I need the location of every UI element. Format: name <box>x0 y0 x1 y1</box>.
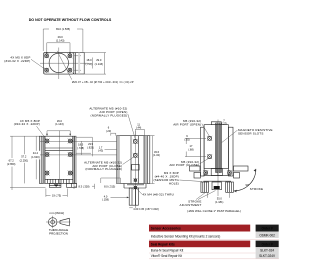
svg-text:(JAW WILL CLOSE 1° PAST PARALL: (JAW WILL CLOSE 1° PAST PARALLEL) <box>187 209 241 213</box>
svg-text:SENSOR SLOTS: SENSOR SLOTS <box>238 132 264 136</box>
svg-text:(1.181): (1.181) <box>215 200 223 204</box>
svg-text:4X M4 (#8-32) THRU: 4X M4 (#8-32) THRU <box>142 192 174 196</box>
svg-text:(NORMALLY PLUGGED): (NORMALLY PLUGGED) <box>85 167 122 171</box>
svg-text:OSMK-002: OSMK-002 <box>259 234 275 238</box>
svg-text:ADJUSTMENT: ADJUSTMENT <box>180 203 202 207</box>
svg-text:(#10-32 X .22DP): (#10-32 X .22DP) <box>4 59 30 63</box>
svg-text:6: 6 <box>108 126 110 130</box>
svg-text:23.5: 23.5 <box>88 142 94 146</box>
svg-text:57.2: 57.2 <box>21 155 27 159</box>
svg-text:(NORMALLY PLUGGED): (NORMALLY PLUGGED) <box>91 114 128 118</box>
svg-text:DO NOT OPERATE WITHOUT FLOW CO: DO NOT OPERATE WITHOUT FLOW CONTROLS <box>29 18 112 22</box>
svg-text:4.0: 4.0 <box>104 194 108 198</box>
svg-text:(.708): (.708) <box>86 62 93 66</box>
svg-text:29.0: 29.0 <box>58 35 64 39</box>
svg-text:9: 9 <box>186 134 188 138</box>
svg-text:18.0: 18.0 <box>86 58 92 62</box>
svg-text:Inductive Sensor Mounting Kit: Inductive Sensor Mounting Kit (mounts 2 … <box>151 235 220 239</box>
svg-text:(.925): (.925) <box>87 145 94 149</box>
svg-text:AIR PORT (OPEN): AIR PORT (OPEN) <box>173 123 201 127</box>
svg-text:44.4: 44.4 <box>33 151 39 155</box>
svg-text:29.0: 29.0 <box>96 58 102 62</box>
svg-text:(.23): (.23) <box>106 129 111 133</box>
svg-text:STROKE: STROKE <box>250 187 263 191</box>
svg-text:67.2: 67.2 <box>9 158 15 162</box>
svg-text:39.0 (1.535): 39.0 (1.535) <box>56 27 70 31</box>
svg-text:(1.32): (1.32) <box>153 153 160 157</box>
svg-text:(1.620): (1.620) <box>31 155 39 159</box>
svg-text:8.0 (.315): 8.0 (.315) <box>104 184 115 188</box>
svg-text:29.0: 29.0 <box>57 119 63 123</box>
svg-text:18.5: 18.5 <box>78 142 84 146</box>
svg-text:(.728): (.728) <box>77 146 84 150</box>
svg-text:(1.143): (1.143) <box>95 62 103 66</box>
svg-text:(.43): (.43) <box>98 149 103 153</box>
svg-text:(#10-32 X .22DP): (#10-32 X .22DP) <box>14 122 40 126</box>
svg-text:(.158): (.158) <box>102 198 109 202</box>
svg-text:Sensor Accessories: Sensor Accessories <box>151 227 181 231</box>
svg-text:8.3 (.328): 8.3 (.328) <box>78 184 89 188</box>
svg-text:PROJECTION: PROJECTION <box>49 231 68 235</box>
svg-text:SLKT-024: SLKT-024 <box>260 248 274 252</box>
svg-text:Seal Repair Kits: Seal Repair Kits <box>151 243 175 247</box>
svg-text:(1.143): (1.143) <box>55 122 63 126</box>
svg-text:HOLE): HOLE) <box>169 181 179 185</box>
svg-text:17: 17 <box>190 144 193 148</box>
svg-text:(2.650): (2.650) <box>7 162 15 166</box>
svg-text:mm [INCH]: mm [INCH] <box>50 211 64 215</box>
svg-text:AIR PORT (CLOSE): AIR PORT (CLOSE) <box>169 163 199 167</box>
svg-text:4.00 ±.05 [.157 ±.002]: 4.00 ±.05 [.157 ±.002] <box>133 207 158 211</box>
svg-text:Buna-N Seal Repair Kit: Buna-N Seal Repair Kit <box>151 248 184 252</box>
svg-text:Order #: Order # <box>262 227 273 231</box>
svg-text:1.7: 1.7 <box>99 145 103 149</box>
svg-text:19 (.75): 19 (.75) <box>52 194 61 198</box>
svg-text:(.68): (.68) <box>188 148 193 152</box>
svg-text:35.0: 35.0 <box>217 196 223 200</box>
svg-text:Ø20.07 +.05/-.02 [Ø.790 +.002/: Ø20.07 +.05/-.02 [Ø.790 +.002/-.001] ↧1 … <box>72 80 134 84</box>
svg-text:(1.143): (1.143) <box>56 39 64 43</box>
svg-text:(2.250): (2.250) <box>20 158 28 162</box>
svg-text:Viton® Seal Repair Kit: Viton® Seal Repair Kit <box>151 254 182 258</box>
svg-text:33.6: 33.6 <box>154 150 160 154</box>
svg-text:SLKT-024V: SLKT-024V <box>259 254 276 258</box>
svg-text:Order #: Order # <box>262 243 273 247</box>
svg-text:(.44): (.44) <box>136 126 141 130</box>
